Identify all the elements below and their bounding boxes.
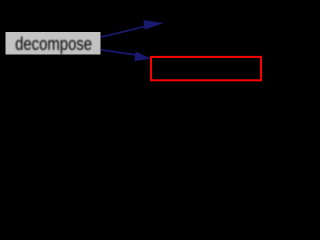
edge to top-right node — [101, 20, 163, 37]
node red (truncated) — [151, 57, 261, 80]
node decompose — [5, 32, 101, 56]
svg-text:decompose: decompose — [15, 33, 92, 54]
node top-right (invisible black on black) — [161, 12, 267, 36]
edge to red node — [101, 50, 150, 61]
